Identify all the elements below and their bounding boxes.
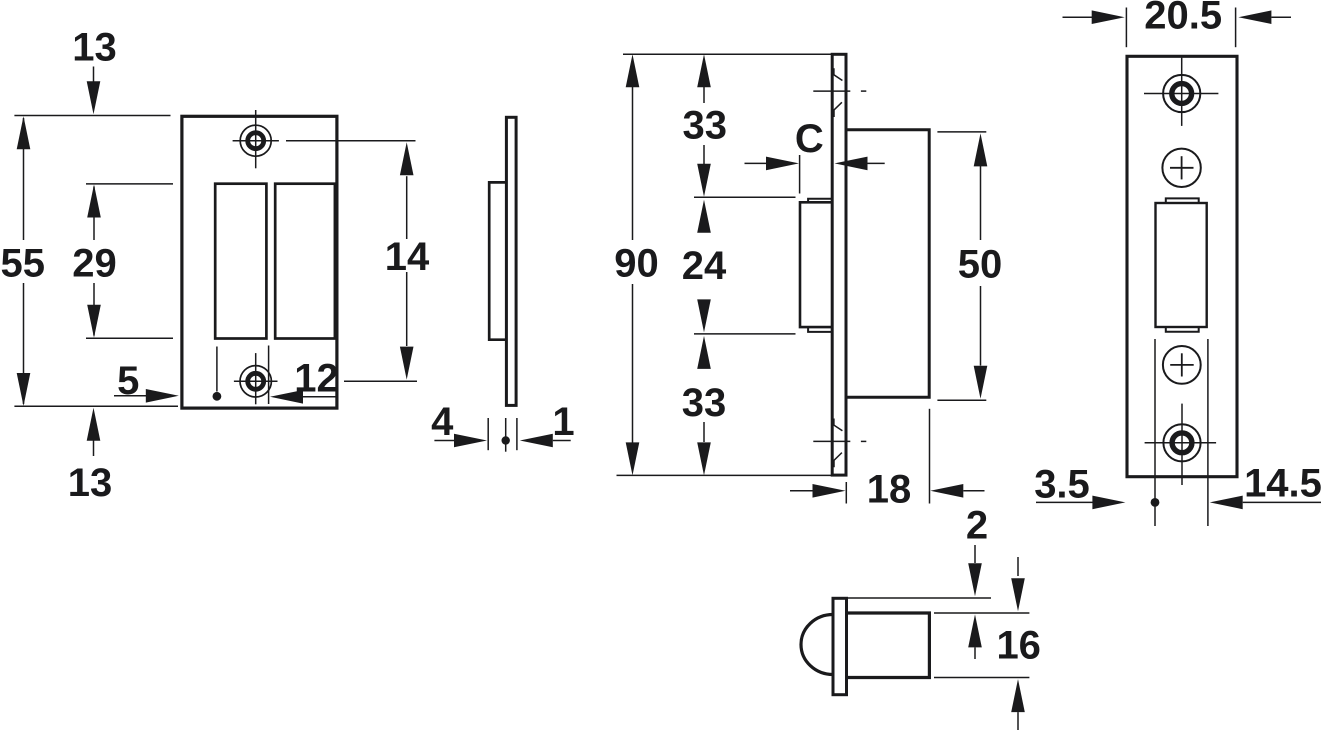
left view: latch cutout right: [275, 184, 335, 339]
side view: latch box profile: [489, 182, 505, 339]
middle view: body-edge extension line (18): [929, 409, 931, 504]
left view: cutout-top extension line: [86, 183, 173, 185]
dimension 33 (top): [683, 54, 728, 197]
detail view: roller dome: [801, 615, 833, 675]
middle view: plate-edge extension line (18): [845, 482, 847, 504]
middle view: body-top extension line (50): [937, 131, 986, 133]
right view: upper adjustment hole: [1162, 149, 1200, 187]
detail view: body-bottom extension line: [934, 677, 1029, 679]
dimension 20.5: [1063, 0, 1292, 38]
left view: bottom screw hole: [234, 353, 278, 404]
middle view: roller housing box: [800, 202, 832, 327]
dimension 18: [790, 468, 985, 512]
middle view: top extension line: [623, 53, 831, 55]
dimension 12: [270, 357, 339, 404]
dimension 16: [996, 557, 1041, 730]
side view: tick line right: [516, 418, 518, 450]
detail view: latch body: [846, 613, 929, 678]
svg-text:55: 55: [1, 242, 46, 286]
right view: strike plate outline: [1127, 56, 1237, 476]
right view: left extension line (20.5): [1125, 8, 1127, 48]
left view: bottom screw centerline extension: [344, 380, 417, 382]
left view: cutout-bottom extension line: [86, 337, 173, 339]
dimension 14.5: [1210, 462, 1322, 510]
middle view: housing-bottom extension line: [694, 333, 796, 335]
middle view: bottom extension line: [617, 474, 833, 476]
svg-text:C: C: [795, 117, 824, 161]
left view: drill reference line with dot: [213, 347, 222, 401]
middle view: break mark top: [813, 68, 866, 117]
middle view: roller housing top lip: [808, 199, 831, 203]
svg-text:33: 33: [682, 381, 727, 425]
svg-text:13: 13: [68, 461, 113, 505]
left view: top screw centerline extension: [286, 140, 416, 142]
side view: tick line left: [487, 418, 489, 450]
svg-text:29: 29: [72, 242, 117, 286]
middle view: latch body: [846, 130, 929, 398]
right view: right drill line: [1207, 339, 1209, 526]
left view: top extension line: [14, 115, 170, 117]
middle view: projection extension line: [799, 155, 801, 194]
middle view: roller housing bottom lip: [808, 327, 831, 332]
dimension 5: [114, 359, 179, 403]
middle view: housing-top extension line: [694, 196, 796, 198]
right view: roller window top lip: [1166, 198, 1199, 203]
right view: roller window bottom lip: [1166, 327, 1199, 332]
left view: bottom extension line: [14, 405, 178, 407]
left view: top screw hole: [233, 110, 279, 168]
middle view: break mark bottom: [813, 419, 866, 468]
svg-text:13: 13: [72, 26, 117, 70]
dimension C: [745, 117, 885, 170]
svg-text:2: 2: [966, 504, 988, 548]
detail view: body-top extension line: [934, 612, 1029, 614]
dimension 3.5: [1034, 463, 1125, 510]
right view: lower adjustment hole: [1163, 346, 1201, 384]
dimension 14: [385, 142, 430, 379]
svg-text:14.5: 14.5: [1244, 462, 1322, 506]
left view: strike plate outline: [182, 116, 337, 408]
svg-text:18: 18: [867, 468, 912, 512]
dimension 13 (top): [72, 26, 117, 115]
svg-text:1: 1: [552, 400, 574, 444]
right view: top screw hole: [1144, 58, 1218, 126]
dimension 33 (bottom): [682, 336, 727, 476]
svg-text:16: 16: [996, 624, 1041, 668]
dimension 29: [72, 185, 117, 338]
dimension 55: [1, 116, 46, 406]
middle view: frame face plate: [832, 54, 846, 475]
detail view: plate-top extension line: [848, 597, 992, 599]
side view: face plate profile: [506, 117, 516, 405]
right view: roller window: [1156, 203, 1207, 327]
side view: tick line middle with dot: [502, 418, 510, 452]
right view: right extension line (20.5): [1235, 8, 1237, 48]
svg-text:3.5: 3.5: [1034, 463, 1090, 507]
detail view: face plate: [833, 598, 847, 694]
dimension 13 (bottom): [68, 408, 113, 505]
right view: bottom screw hole: [1145, 404, 1217, 485]
left view: cutout-edge extension line (12): [268, 346, 270, 405]
left view: latch cutout left: [215, 184, 266, 339]
middle view: body-bottom extension line (50): [937, 399, 986, 401]
svg-text:33: 33: [683, 104, 728, 148]
svg-text:50: 50: [958, 243, 1003, 287]
svg-text:12: 12: [294, 357, 339, 401]
svg-text:24: 24: [682, 244, 727, 288]
dimension 2: [966, 504, 988, 659]
svg-text:20.5: 20.5: [1144, 0, 1222, 38]
dimension 1: [520, 400, 575, 447]
dimension 4: [431, 400, 487, 447]
dimension 90: [614, 54, 659, 475]
right view: left drill line with dot: [1151, 339, 1160, 526]
svg-text:90: 90: [614, 242, 659, 286]
dimension 50: [958, 133, 1003, 398]
dimension 24: [682, 200, 727, 333]
svg-text:4: 4: [431, 400, 454, 444]
